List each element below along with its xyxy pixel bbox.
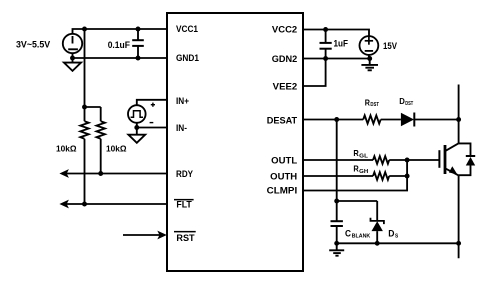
junction dot VCC2/C2 — [323, 27, 328, 32]
diode D2 (antiparallel across IGBT) — [459, 143, 476, 175]
svg-text:R: R — [353, 164, 358, 174]
wire D_DST to collector rail — [414, 119, 458, 121]
IC U1 (gate driver) — [167, 13, 303, 271]
wire R_GH to gate riser — [389, 175, 407, 177]
wire GDN2 net — [303, 58, 370, 60]
transistor Q1 IGBT — [439, 143, 458, 175]
wire DESAT net — [303, 119, 363, 121]
capacitor C_BLANK — [331, 201, 343, 243]
svg-text:10kΩ: 10kΩ — [56, 144, 77, 154]
wire OUTL net — [303, 159, 373, 161]
label D_S — [388, 229, 398, 240]
wire R2 bottom to RDY line — [100, 139, 102, 174]
junction dot VCC1/C1 — [136, 27, 141, 32]
svg-text:0.1uF: 0.1uF — [108, 40, 131, 50]
wire pull-up feed (VCC1 down to R1) — [84, 29, 86, 121]
wire VCC1 net (source top to pin VCC1) — [73, 29, 168, 34]
junction dot feed/jog — [82, 105, 87, 110]
label D_DST — [399, 96, 413, 107]
wire blanking riser (DESAT down) — [336, 120, 338, 202]
junction dot RDY/R2 — [98, 171, 103, 176]
ground (triangle) under V1 — [64, 58, 81, 71]
polarity - of VG — [150, 122, 154, 124]
wire OUTH net — [303, 175, 373, 177]
ground (triangle) under VG — [128, 128, 145, 143]
resistor R1 10k (left pull-up) — [80, 121, 88, 139]
svg-text:CLMPI: CLMPI — [267, 186, 298, 197]
wire collector rail (stub up) — [458, 85, 460, 144]
junction dot gate node / OUTL — [405, 158, 410, 163]
svg-text:1uF: 1uF — [334, 39, 349, 49]
junction dot C_BLANK/bottom rail — [334, 241, 339, 246]
svg-text:IN-: IN- — [176, 123, 187, 134]
ground (bars) under 15V — [361, 59, 378, 71]
svg-text:GDN2: GDN2 — [272, 54, 298, 65]
svg-text:OUTH: OUTH — [270, 171, 297, 182]
wire blanking top rail — [337, 200, 378, 202]
junction dot GDN2/C2/VEE2 — [323, 56, 328, 61]
pin label RST (with overline) — [174, 231, 196, 244]
wire R1 bottom to FLT line — [84, 139, 86, 204]
wire R2 top lead — [100, 107, 102, 121]
label C_BLANK — [345, 229, 370, 240]
wire IN+ net — [137, 100, 167, 105]
zener diode D_S — [371, 201, 384, 243]
svg-text:RST: RST — [176, 233, 194, 244]
svg-text:VEE2: VEE2 — [273, 81, 298, 92]
svg-text:DESAT: DESAT — [267, 115, 298, 126]
wire FLT net (arrow out) — [59, 200, 167, 209]
svg-text:R: R — [365, 97, 370, 107]
svg-text:GND1: GND1 — [176, 53, 200, 64]
wire jog to R2 — [85, 106, 101, 108]
svg-text:BLANK: BLANK — [352, 233, 371, 239]
wire bottom rail to emitter — [337, 242, 459, 244]
svg-text:FLT: FLT — [176, 200, 192, 211]
label R_GH — [353, 164, 368, 176]
wire R_DST to D_DST — [381, 119, 401, 121]
pulse source VG — [128, 105, 146, 123]
wire R_GL to gate node — [389, 159, 439, 161]
junction dot GND1/C1 — [136, 56, 141, 61]
wire GND1 net — [73, 57, 168, 59]
svg-text:R: R — [353, 148, 358, 158]
ground (bars) under C_BLANK — [329, 243, 344, 255]
diode D_DST — [401, 113, 414, 127]
svg-text:VCC2: VCC2 — [272, 25, 297, 36]
label R_DST — [365, 97, 380, 108]
wire IN- net — [137, 123, 167, 128]
svg-text:IN+: IN+ — [176, 96, 189, 107]
voltage source V2 15V — [360, 36, 379, 58]
svg-text:15V: 15V — [383, 41, 397, 51]
junction dot VCC1/pull-up feed — [82, 27, 87, 32]
svg-text:C: C — [345, 229, 351, 239]
resistor R_GL — [373, 156, 389, 164]
junction dot IN-/ground — [134, 125, 139, 130]
svg-text:OUTL: OUTL — [271, 155, 297, 166]
svg-text:3V~5.5V: 3V~5.5V — [16, 40, 50, 50]
svg-text:DST: DST — [370, 102, 379, 108]
junction dot emitter/bottom rail — [456, 241, 461, 246]
svg-text:GL: GL — [359, 153, 368, 159]
capacitor C1 0.1uF — [132, 29, 144, 58]
voltage source V1 3V~5.5V — [63, 34, 82, 58]
svg-text:D: D — [388, 229, 395, 239]
label R_GL — [353, 148, 368, 160]
svg-text:VCC1: VCC1 — [176, 24, 199, 35]
resistor R_DST — [363, 115, 381, 123]
pin label FLT (with overline) — [174, 199, 194, 211]
svg-text:10kΩ: 10kΩ — [106, 144, 127, 154]
wire CLMPI net — [303, 160, 407, 191]
junction dot D_S/bottom rail — [375, 241, 380, 246]
wire RST net (arrow in) — [123, 231, 167, 240]
svg-text:D: D — [399, 96, 405, 106]
wire emitter rail (down) — [458, 175, 460, 258]
junction dot GDN2/15V/ground — [367, 56, 372, 61]
svg-text:GH: GH — [359, 169, 368, 175]
wire VEE2 net (tied to GDN2) — [303, 59, 326, 87]
junction dot GND1/source — [70, 56, 75, 61]
capacitor C2 1uF — [320, 30, 332, 59]
resistor R2 10k (right pull-up) — [97, 121, 105, 139]
junction dot DESAT/collector rail — [456, 117, 461, 122]
svg-text:RDY: RDY — [176, 169, 194, 180]
junction dot blanking top rail — [334, 199, 339, 204]
resistor R_GH — [373, 172, 389, 180]
svg-text:S: S — [395, 233, 398, 239]
junction dot DESAT/blanking riser — [334, 117, 339, 122]
svg-text:DST: DST — [405, 101, 413, 107]
wire VCC2 net to 15V source — [303, 30, 369, 37]
junction dot FLT/R1 — [82, 202, 87, 207]
polarity + of VG — [151, 103, 155, 107]
junction dot gate riser / OUTH — [405, 174, 410, 179]
wire RDY net (arrow out) — [59, 169, 167, 178]
